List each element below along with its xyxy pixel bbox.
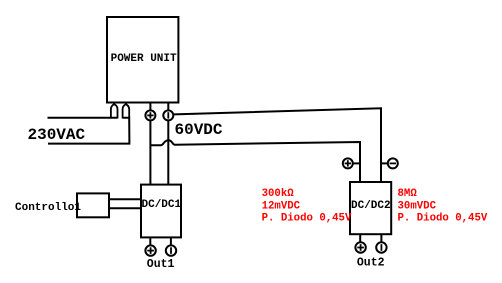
test point + at DC/DC2 input	[343, 158, 360, 168]
svg-text:12mVDC: 12mVDC	[262, 200, 301, 212]
output - terminal of DC/DC2 (circle with vertical bar)	[376, 234, 386, 253]
wire 230VAC line bottom	[48, 118, 129, 144]
svg-text:8MΩ: 8MΩ	[398, 188, 418, 200]
svg-text:P. Diodo 0,45V: P. Diodo 0,45V	[398, 213, 488, 225]
svg-text:60VDC: 60VDC	[175, 121, 223, 139]
svg-text:30mVDC: 30mVDC	[398, 200, 437, 212]
wire -60V down to DC/DC1	[167, 120, 169, 184]
svg-text:POWER UNIT: POWER UNIT	[111, 53, 177, 65]
svg-text:Out2: Out2	[357, 257, 385, 270]
svg-text:DC/DC2: DC/DC2	[351, 200, 391, 212]
controller box	[77, 193, 109, 217]
wire control line 2	[109, 207, 141, 209]
wire 230VAC line top	[48, 117, 118, 119]
wire +60V down to DC/DC1	[149, 120, 151, 184]
svg-text:Out1: Out1	[147, 258, 175, 271]
test point - at DC/DC2 input (circle with minus)	[381, 158, 398, 168]
svg-text:DC/DC1: DC/DC1	[142, 199, 182, 211]
output + terminal of DC/DC1	[145, 237, 155, 255]
terminal + of power unit	[145, 103, 155, 121]
converter DC/DC1 box	[141, 185, 182, 238]
svg-text:300kΩ: 300kΩ	[262, 188, 295, 200]
output - terminal of DC/DC1 (circle with vertical bar)	[166, 237, 176, 255]
terminal - of power unit (circle with vertical bar)	[163, 103, 173, 121]
AC pin N (right plug pin)	[123, 103, 130, 119]
converter DC/DC2 box	[350, 182, 391, 234]
AC pin L (left plug pin)	[111, 103, 118, 119]
wire -60V to DC/DC2 (top run)	[174, 108, 381, 182]
svg-text:P. Diodo 0,45V: P. Diodo 0,45V	[262, 213, 352, 225]
wire +60V branch with hop to DC/DC2	[151, 140, 360, 182]
svg-text:Controllo1: Controllo1	[15, 202, 81, 214]
output + terminal of DC/DC2	[355, 234, 365, 253]
svg-text:230VAC: 230VAC	[28, 126, 86, 144]
power unit U1 box	[107, 17, 178, 103]
wire control line 1	[109, 198, 141, 200]
